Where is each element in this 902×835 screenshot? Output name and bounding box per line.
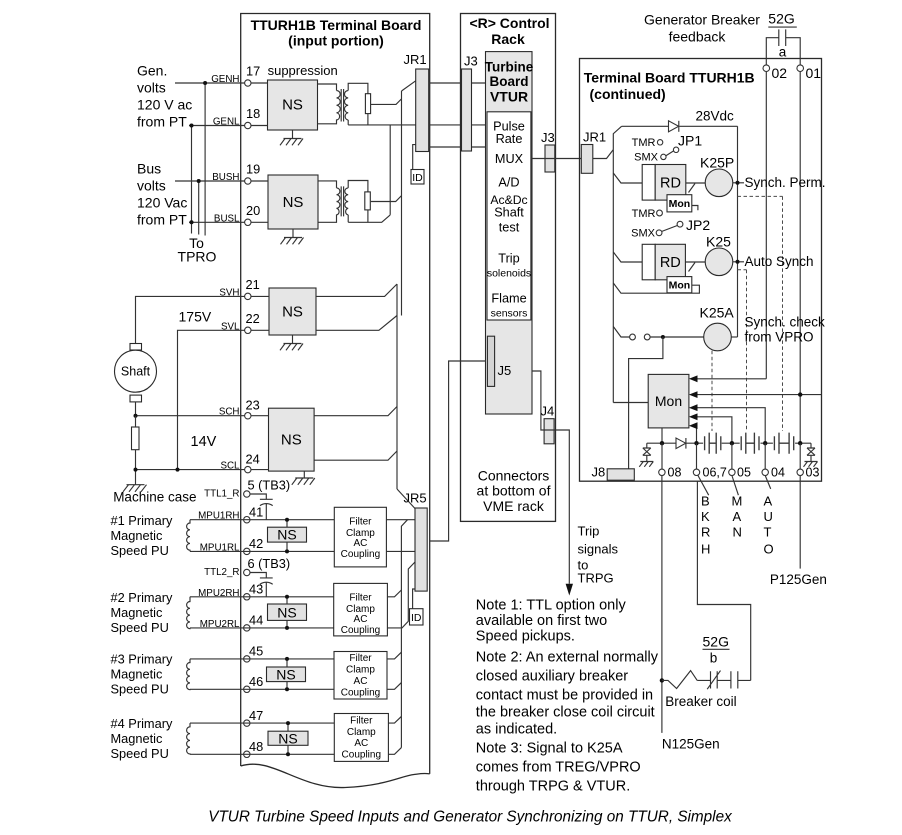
svg-text:Filter: Filter [350,716,373,727]
junction NS3s top [285,657,289,661]
svg-text:Breaker coil: Breaker coil [665,694,736,709]
lane L1 vertical [401,91,403,316]
cap TTL1 [250,494,273,520]
rail GENH to TPRO [204,83,206,236]
wire 28Vdc horizontal [622,125,738,127]
NS box 1 [268,80,318,130]
svg-text:BUSL: BUSL [214,213,240,224]
svg-text:Filter: Filter [349,592,372,603]
wire MPU2RH [190,596,334,598]
wire 21 to NS3 [251,295,269,297]
svg-text:20: 20 [246,203,260,218]
filter box 3 [334,652,387,700]
wire filter4 out low to lane Q [388,748,401,755]
NS box 3 [269,288,316,335]
svg-text:AC: AC [354,614,368,625]
NS shunt 2 [268,604,307,620]
terminal stubs to bottom row [662,443,800,469]
rail BUSH to TPRO [198,181,200,235]
hook Mon1 [692,206,698,211]
svg-text:test: test [499,221,520,235]
jumper JP2 TMR circle [657,210,663,216]
wire filter1 out high to JR5 [386,519,415,521]
svg-text:22: 22 [246,311,260,326]
Mon arrow feed 3 from terminal 04 column [695,408,765,444]
stubs NS shunt 4 [287,723,289,754]
wire N125Gen [661,476,663,733]
wire RD1 to K25P [686,182,705,184]
junction BUSL [190,220,194,224]
wire filter2 out high to lane Q [387,590,401,597]
wire 03 to P125Gen [799,476,801,569]
svg-text:Synch. check: Synch. check [745,315,826,330]
dashed link K25 contacts [738,270,747,431]
wire K25A branch to J8 [629,337,663,469]
wire GENL [189,125,245,127]
connector JR5 left board [415,508,427,591]
stubs NS shunt 3 [286,659,288,689]
jumper JP1 TMR circle [657,140,662,145]
terminal 01 [797,65,804,72]
svg-text:J3: J3 [464,54,478,69]
svg-text:Coupling: Coupling [341,625,380,636]
svg-text:NS: NS [282,304,303,321]
svg-text:the breaker close coil circuit: the breaker close coil circuit [476,705,655,721]
svg-text:Speed PU: Speed PU [111,746,169,761]
svg-text:sensors: sensors [491,308,528,320]
svg-text:Mon: Mon [669,280,691,292]
Mon box 1 [667,195,692,212]
lane L1 to JR1 [402,81,416,91]
svg-text:GENL: GENL [213,117,240,128]
junction row 05 [730,441,734,445]
svg-text:TTL2_R: TTL2_R [204,567,239,578]
svg-text:Machine case: Machine case [113,490,196,505]
svg-text:M: M [732,494,743,509]
wire K25P to rail [733,182,744,184]
svg-text:MUX: MUX [495,152,524,166]
svg-text:volts: volts [137,79,166,95]
control rack box [461,14,556,522]
lane L2 vertical [389,125,391,215]
jumper JP2 common circle [677,221,683,227]
svg-text:Bus: Bus [137,160,161,176]
terminal 03 [797,469,803,475]
wire T2 low output to lane L2 [348,215,390,222]
shaft bottom terminal [130,395,142,402]
breaker coil zigzag [662,671,697,689]
svg-text:Speed PU: Speed PU [111,682,169,697]
wire SCH to resistor [135,416,137,427]
svg-text:feedback: feedback [669,29,727,45]
wire shaft bottom to SCH [135,402,137,416]
svg-text:#4 Primary: #4 Primary [111,716,173,731]
svg-text:ID: ID [411,612,422,624]
svg-text:Note 3: Signal to K25A: Note 3: Signal to K25A [476,741,623,757]
svg-text:Coupling: Coupling [342,749,381,760]
svg-text:NS: NS [277,604,296,620]
svg-text:ID: ID [412,172,423,184]
svg-text:41: 41 [249,505,263,520]
stubs NS shunt 2 [286,597,288,628]
cap TTL2 [250,573,273,597]
resistor machine case [132,427,140,450]
svg-text:VTUR: VTUR [490,89,528,105]
slash mark RD2 output [689,263,696,272]
wire bus to Mon [613,402,648,404]
svg-text:JR1: JR1 [404,52,427,67]
junction K25P rail [736,181,740,185]
VTUR white function list box [487,112,531,320]
svg-text:TPRO: TPRO [178,249,217,265]
RD module 1 [642,165,655,201]
svg-text:Clamp: Clamp [347,727,376,738]
junction NS4s bottom [286,752,290,756]
hook Mon2 to bus stub [613,283,699,293]
wire 46 [190,688,334,690]
svg-text:Coupling: Coupling [341,549,380,560]
svg-text:Filter: Filter [349,653,372,664]
junction rail 01 feed2 [798,392,802,396]
svg-text:through TRPG & VTUR.: through TRPG & VTUR. [476,779,630,795]
wire gap [697,679,751,681]
svg-text:A: A [764,494,773,509]
ground NS1 [280,130,303,145]
wire NS4 low output to lane P [314,451,397,460]
Mon arrow feed 2 from board edge [695,394,821,396]
svg-text:RD: RD [660,176,681,192]
wire 47 [190,722,334,724]
svg-text:5 (TB3): 5 (TB3) [248,478,291,493]
junction resistor SCL [134,468,138,472]
NS shunt 3 [267,667,306,682]
svg-text:AC: AC [354,738,368,749]
ID box JR1 [411,170,424,185]
ground NS3 [280,335,303,350]
junction NS1s bottom [285,549,289,553]
svg-text:TMR: TMR [632,208,656,220]
svg-text:06,7: 06,7 [703,466,727,480]
svg-text:17: 17 [246,64,260,79]
svg-text:K25: K25 [706,234,731,250]
contact pair K25 [741,433,759,454]
svg-text:42: 42 [249,536,263,551]
svg-text:AC: AC [353,538,367,549]
svg-text:SCH: SCH [219,407,240,418]
svg-text:TTURH1B Terminal Board: TTURH1B Terminal Board [251,17,422,33]
wire JR1 to bus [593,150,614,159]
svg-text:19: 19 [246,162,260,177]
junction row 03 [798,441,802,445]
svg-text:Magnetic: Magnetic [111,605,164,620]
svg-text:signals: signals [578,542,619,557]
NS box 4 [269,408,315,471]
svg-text:suppression: suppression [268,63,338,78]
terminal circles column [244,80,251,758]
svg-text:N125Gen: N125Gen [662,737,720,752]
ground NS4 [292,471,315,485]
svg-text:Magnetic: Magnetic [111,667,164,682]
stub bus to RD1 [613,173,642,183]
transformer T1 secondary [345,83,368,125]
svg-text:52G: 52G [768,11,794,27]
connector J4 [544,419,554,444]
wire filter3 out high to lane Q [387,652,401,659]
svg-text:Speed pickups.: Speed pickups. [476,629,575,645]
wire JR5 to ID [413,589,415,609]
wire NS4 high output to lane P [314,407,397,416]
junction row 04 [763,441,767,445]
svg-text:Synch. Perm.: Synch. Perm. [745,175,826,190]
transformer T2 core [341,186,343,216]
bus vertical right board [612,150,614,403]
svg-text:TMR: TMR [632,137,656,149]
svg-text:Note 2: An external normally: Note 2: An external normally [476,650,659,666]
svg-text:VTUR Turbine Speed Inputs and: VTUR Turbine Speed Inputs and Generator … [208,809,733,826]
connector J3 rack left [462,69,472,151]
svg-text:Speed PU: Speed PU [111,620,169,635]
svg-text:P125Gen: P125Gen [770,572,827,587]
wire 20 to NS2 [251,221,268,223]
junction row 06 [694,441,698,445]
terminal 05 [729,469,735,475]
contact 52G b normally closed [707,671,720,690]
Mon arrow feed 1 from rail 02 [695,378,766,380]
svg-text:14V: 14V [191,434,217,450]
wire 28Vdc [613,126,621,149]
svg-text:#3 Primary: #3 Primary [111,652,173,667]
RD module 2 [642,244,655,279]
svg-text:Flame: Flame [491,292,526,306]
svg-text:23: 23 [246,398,260,413]
svg-text:NS: NS [278,730,297,746]
contact circles K25A input [630,334,636,340]
transformer T1 primary [318,84,341,124]
wire SCL [136,469,245,471]
resistor R2 secondary load [365,192,371,210]
ground machine case [123,485,147,492]
svg-text:Shaft: Shaft [494,206,524,220]
wire 45 [190,658,334,660]
svg-text:52G: 52G [703,634,729,650]
underline 52G [768,26,797,28]
connector JR1 left board [416,69,429,152]
wire BUSH [175,180,245,182]
terminal 02 [763,65,770,72]
junction K25A branch [661,335,665,339]
svg-text:J3: J3 [541,130,555,145]
svg-text:closed auxiliary breaker: closed auxiliary breaker [476,669,628,685]
transformer T2 primary [318,181,340,222]
svg-text:44: 44 [249,613,263,628]
svg-text:02: 02 [772,65,788,81]
connector J3 rack right [545,145,555,172]
svg-text:Magnetic: Magnetic [111,731,164,746]
svg-text:SMX: SMX [634,152,659,164]
stubs NS shunt 1 [286,520,288,552]
svg-text:Gen.: Gen. [137,62,167,78]
NS shunt 4 [268,731,308,745]
wire 52G a to terminal 01 [786,38,801,65]
wire 18 to NS1 [251,125,268,127]
wire 17 to NS1 [251,82,268,84]
svg-text:B: B [701,494,710,509]
svg-text:120 V ac: 120 V ac [137,96,192,112]
rail GENL/BUSL to TPRO [191,126,193,234]
rail 28Vdc down [737,126,739,337]
svg-text:SVL: SVL [221,321,240,332]
svg-text:Generator Breaker: Generator Breaker [644,12,760,28]
wire BKRH breaker circuit [697,481,750,680]
svg-text:48: 48 [249,739,263,754]
wire SCH [136,415,245,417]
slash mark RD1 output [689,184,696,193]
svg-text:a: a [779,45,787,60]
svg-text:NS: NS [277,527,296,543]
wire NS1 low output to JR1/J3 [348,124,485,126]
svg-text:JR1: JR1 [583,130,606,145]
Mon monitor box [648,374,689,428]
terminal 08 [659,469,665,475]
wire JR1-J3 top [429,82,486,84]
wire Mon bottom to row [661,428,663,443]
svg-text:Mon: Mon [655,393,682,409]
lane P vertical [396,284,398,489]
wire 23 to NS4 [251,415,269,417]
svg-text:18: 18 [246,106,260,121]
TVS left with ground [639,443,653,467]
svg-text:46: 46 [249,674,263,689]
jumper JP1 common circle [673,147,678,152]
wire filter2 out low to lane Q [387,562,415,628]
wire 48 [190,753,334,755]
filter box 4 [334,714,388,762]
svg-text:Terminal Board TTURH1B: Terminal Board TTURH1B [584,70,755,86]
terminal 06,7 [693,469,699,475]
svg-text:U: U [764,509,773,524]
connector JR1 right board [581,145,593,174]
svg-text:Filter: Filter [349,516,372,527]
NS shunt 1 [268,527,307,542]
svg-text:28Vdc: 28Vdc [696,109,735,124]
relay K25A [704,323,732,351]
wire contact to K25A [650,336,704,338]
contact pair K25A [705,433,721,454]
svg-text:GENH: GENH [211,74,239,85]
svg-text:Rack: Rack [491,31,525,47]
jumper JP1 blade [666,151,674,156]
filter box 1 [334,507,386,567]
svg-text:from VPRO: from VPRO [745,330,814,345]
junction NS2s top [285,595,289,599]
svg-text:05: 05 [737,466,751,480]
wire NS3 high output to lane P [316,284,397,296]
dashed link K25P contacts [738,196,783,431]
leader 04 to AUTO [765,476,771,489]
lane P to JR5 [397,489,415,509]
wire 24 to NS4 [251,469,269,471]
svg-text:VME rack: VME rack [483,498,545,514]
wire filter3 out low to lane Q [387,683,401,690]
shaft top terminal [130,344,142,351]
wire K25A to rail [731,336,737,338]
relay K25 [705,248,733,276]
svg-text:NS: NS [276,667,295,683]
junction GENL [190,124,194,128]
Mon box 2 [667,277,692,293]
svg-text:120 Vac: 120 Vac [137,194,187,210]
svg-text:6 (TB3): 6 (TB3) [248,556,291,571]
svg-text:AC: AC [354,676,368,687]
pickup coil 3 [187,659,190,690]
svg-text:Speed PU: Speed PU [111,543,169,558]
jumper JP1 SMX circle [661,154,666,159]
svg-text:J8: J8 [592,465,606,480]
svg-text:R: R [701,525,710,540]
svg-text:K25P: K25P [700,155,734,171]
svg-text:from PT: from PT [137,113,187,129]
wire VTUR to J4 trip signals [532,371,569,584]
svg-text:comes from TREG/VPRO: comes from TREG/VPRO [476,760,641,776]
diode D1 28Vdc [669,121,679,132]
svg-text:N: N [733,525,742,540]
svg-text:SMX: SMX [631,228,656,240]
wire R2 bottom [367,210,369,222]
relay K25P [705,169,733,197]
wire MPU1RL [190,550,334,552]
wire MPU2RL [190,627,334,629]
junction BUSH [197,179,201,183]
VTUR board panel [486,52,533,414]
svg-text:45: 45 [249,644,263,659]
rail 01 down to contacts row [799,72,801,444]
stub bus to K25A contact [613,327,629,338]
pickup coil 1 [187,520,190,552]
svg-text:47: 47 [249,708,263,723]
svg-text:solenoids: solenoids [487,268,531,280]
svg-text:Rate: Rate [496,132,523,146]
rail 02 down to Mon [765,72,767,379]
connector J8 [607,469,634,480]
svg-text:SCL: SCL [220,461,240,472]
svg-text:24: 24 [246,452,260,467]
svg-text:K25A: K25A [700,305,735,321]
junction shaft SCH [134,414,138,418]
wire resistor to SCL [135,450,137,485]
NS box 2 [268,175,318,229]
svg-text:(continued): (continued) [590,86,666,102]
transformer T2 secondary [345,181,368,223]
svg-text:Shaft: Shaft [121,365,151,379]
svg-text:#2 Primary: #2 Primary [111,590,173,605]
svg-text:01: 01 [806,65,822,81]
svg-text:SVH: SVH [219,287,239,298]
svg-text:NS: NS [282,97,303,114]
Mon arrow feed 4 from terminal 05 column [695,417,732,443]
svg-text:O: O [764,542,774,557]
svg-text:A: A [733,509,742,524]
TVS right with ground [804,443,818,467]
wire J5 to J3 cable and JR5 [430,361,486,541]
svg-text:b: b [710,650,718,665]
svg-text:BUSH: BUSH [212,172,239,183]
svg-text:Turbine: Turbine [485,60,534,75]
svg-text:J4: J4 [541,404,555,419]
wavy bottom break of input board [241,764,430,787]
jumper JP2 blade [662,226,677,232]
svg-text:Connectors: Connectors [478,468,550,484]
wire JR1-J3 third [429,146,487,148]
